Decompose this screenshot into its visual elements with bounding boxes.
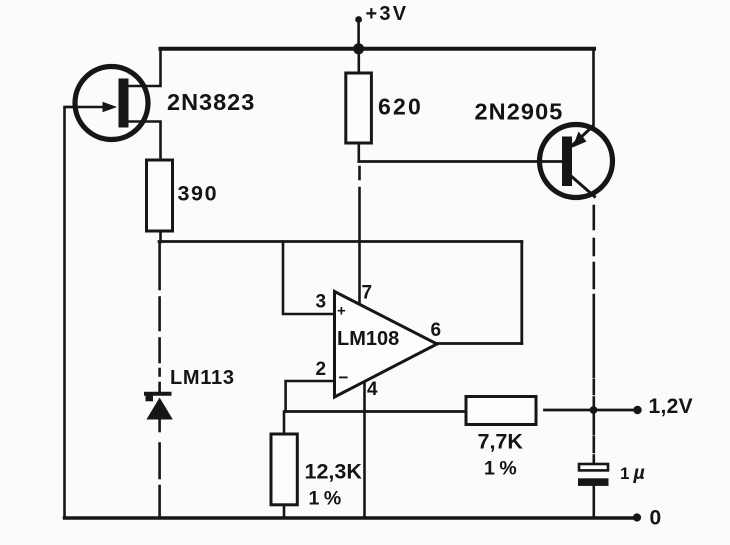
svg-text:6: 6 [431, 320, 442, 341]
svg-text:3: 3 [316, 292, 327, 313]
wire LM113 branch above diode (dashed) [158, 242, 161, 289]
op-amp U1 LM108 [335, 292, 438, 398]
capacitor C1 bottom plate [578, 478, 609, 486]
wire 620 top stub [357, 49, 360, 74]
svg-text:4: 4 [367, 379, 378, 400]
wire pin 3 step [283, 242, 335, 315]
wire divider horizontal [286, 410, 466, 413]
svg-text:LM108: LM108 [337, 328, 399, 350]
svg-text:2: 2 [316, 359, 327, 380]
transistor Q1 2N3823 (JFET) [65, 67, 148, 140]
svg-text:2N2905: 2N2905 [475, 99, 564, 125]
transistor Q2 2N2905 (PNP) [540, 125, 613, 198]
wire base line to Q2 [359, 160, 563, 163]
resistor R1 390 [147, 160, 173, 231]
wire top supply rail [161, 47, 595, 51]
wire feedback top horizontal [159, 240, 522, 243]
svg-text:+3V: +3V [366, 3, 409, 25]
junction node on +3V rail [353, 43, 364, 54]
node output dot [590, 406, 598, 414]
wire 620 bottom stub [357, 143, 360, 162]
wire JFET drain to rail [126, 49, 161, 87]
wire JFET source to R390 [126, 122, 161, 161]
node +3V terminal dot [355, 16, 362, 23]
zener diode D1 LM113 [146, 394, 173, 420]
wire Q2 emitter to rail [592, 49, 595, 128]
wire LM113 branch below diode (dashed) [158, 420, 161, 432]
wire Q2 collector dash-dot down to output node [592, 206, 595, 229]
wire 12,3K bottom stub [283, 505, 286, 518]
wire bottom ground rail [65, 516, 636, 520]
wire feedback right riser [520, 242, 523, 344]
wire +3V stub [357, 20, 360, 49]
node 0 terminal dot [633, 513, 641, 521]
svg-text:7,7K: 7,7K [478, 430, 524, 454]
capacitor C1 top plate [579, 464, 608, 470]
svg-text:12,3K: 12,3K [305, 460, 363, 484]
resistor R4 7,7K [466, 397, 536, 425]
svg-text:+: + [337, 303, 346, 320]
svg-text:2N3823: 2N3823 [167, 89, 255, 115]
svg-text:0: 0 [650, 507, 662, 530]
resistor R2 620 [346, 73, 372, 143]
svg-text:1%: 1% [484, 458, 517, 480]
wire pin 7 supply (dashed then solid) [358, 167, 361, 179]
svg-text:620: 620 [378, 94, 423, 120]
wire output node to 1,2V terminal [593, 409, 635, 412]
wire R390 bottom stub [159, 231, 162, 242]
wire op-amp output pin 6 [437, 342, 522, 345]
svg-text:1,2V: 1,2V [649, 395, 693, 418]
wire pin 4 to ground rail [363, 383, 366, 518]
wire pin 2 step [286, 381, 335, 412]
svg-text:1%: 1% [309, 488, 342, 510]
wire 7,7K to output node (with gap) [545, 409, 594, 412]
wire 12,3K top stub [283, 412, 286, 435]
svg-text:−: − [339, 368, 349, 387]
svg-text:LM113: LM113 [170, 367, 235, 389]
svg-text:390: 390 [178, 182, 219, 206]
resistor R3 12,3K [271, 434, 297, 505]
wire left vertical (gate to ground) [65, 107, 76, 518]
wire node to capacitor (short dash) [592, 410, 595, 434]
wire capacitor to ground rail [592, 486, 595, 518]
svg-text:7: 7 [362, 283, 373, 304]
node 1,2V terminal dot [633, 406, 641, 414]
